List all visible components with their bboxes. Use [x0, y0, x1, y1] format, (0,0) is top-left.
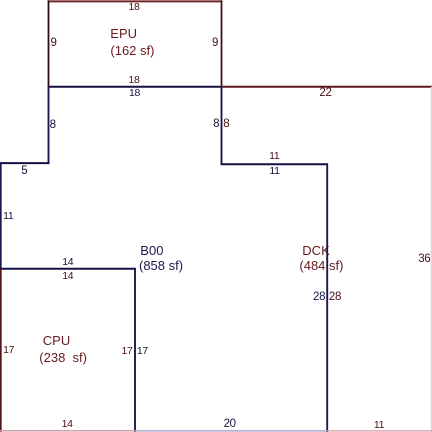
dim 8 DCK left wall	[223, 118, 229, 129]
label CPU area name	[43, 334, 70, 347]
label CPU area size	[39, 351, 87, 364]
label DCK area name	[302, 244, 329, 257]
dim 28 DCK notch wall	[329, 292, 341, 303]
dim 18 EPU top wall	[128, 2, 139, 13]
wall CPU left (17)	[0, 269, 2, 432]
wall B00 lower-left / CPU top (14|14)	[0, 268, 135, 270]
wall B00 bottom (20)	[135, 430, 327, 432]
wall DCK bottom (11)	[327, 430, 432, 432]
wall B00 left vertical (11)	[0, 162, 2, 269]
dim 14 CPU bottom wall	[62, 419, 73, 430]
dim 11 B00 step wall	[269, 165, 279, 176]
dim 17 CPU right wall	[121, 346, 132, 357]
wall B00 mid / CPU right (17|17)	[134, 268, 136, 432]
wall EPU right	[221, 0, 223, 86]
label EPU area size	[110, 44, 154, 57]
label B00 area name	[140, 244, 163, 257]
dim 8 B00 upper-left wall	[50, 120, 56, 131]
label EPU area name	[110, 27, 137, 40]
dim 9 EPU right wall	[212, 38, 218, 49]
wall EPU left	[48, 0, 50, 86]
wall CPU bottom (14)	[0, 430, 135, 432]
wall DCK top (22)	[222, 86, 432, 88]
wall B00 jog horizontal (5)	[1, 162, 50, 164]
dim 5 B00 jog wall	[21, 165, 27, 176]
dim 17 B00 mid wall	[137, 346, 148, 357]
wall B00 top (18)	[48, 86, 223, 88]
wall B00 step horizontal (11|11)	[221, 163, 328, 165]
label B00 area size	[139, 259, 183, 272]
dim 11 DCK bottom wall	[374, 420, 384, 431]
dim 20 B00 bottom wall	[224, 419, 236, 430]
wall DCK right (36)	[431, 87, 432, 432]
dim 28 B00 right wall	[313, 292, 325, 303]
dim 9 EPU left wall	[50, 38, 56, 49]
dim 22 DCK top wall	[319, 88, 331, 99]
dim 18 B00 top wall	[129, 88, 140, 99]
dim 11 B00 left wall	[3, 211, 13, 222]
dim 8 B00 upper-right wall	[213, 118, 219, 129]
dim 14 CPU top wall	[62, 270, 73, 281]
dim 14 B00 lower-left wall	[62, 256, 73, 267]
dim 17 CPU left wall	[3, 345, 14, 356]
wall B00/DCK shared vertical (28|28)	[326, 163, 328, 432]
dim 18 EPU bottom wall	[128, 75, 139, 86]
wall EPU top	[48, 0, 223, 2]
dim 36 DCK right wall	[418, 254, 430, 265]
label DCK area size	[299, 259, 343, 272]
wall B00/DCK shared vertical (8|8)	[221, 87, 223, 164]
dim 11 DCK notch bottom wall	[269, 151, 279, 162]
wall B00 upper-left vertical (8)	[48, 87, 50, 164]
